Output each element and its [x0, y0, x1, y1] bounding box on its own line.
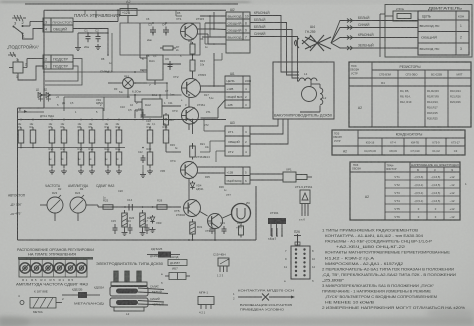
- capacitor C9: [169, 61, 171, 65]
- transistor VT1: [181, 23, 198, 40]
- transistor VT5: [184, 200, 201, 217]
- switch P2K body: [291, 246, 310, 279]
- wire v112: [111, 33, 113, 72]
- wire vertical v210: [209, 16, 211, 37]
- box twocell: [169, 273, 186, 280]
- wire h108: [18, 107, 103, 109]
- connector X5 table: [225, 167, 250, 184]
- wire bottom area: [192, 234, 194, 240]
- resistor R38 col: [165, 113, 167, 115]
- resonator circle: [232, 204, 251, 223]
- A2 overline bracket: [25, 3, 238, 5]
- capacitor C2: [97, 33, 99, 37]
- voltage table frame: [350, 162, 460, 220]
- resistor R30 vert: [192, 144, 194, 147]
- plug XP1: [283, 172, 296, 182]
- package KT361: [268, 218, 286, 224]
- trimmer SP5: [218, 258, 229, 266]
- control board outline left lower: [18, 107, 45, 109]
- jack symbol 2: [8, 52, 16, 57]
- junction dots bus: [63, 119, 65, 121]
- resistor row A: [20, 127, 22, 130]
- vacuum motor box: [273, 62, 334, 119]
- wire v143: [142, 109, 144, 120]
- wire VT1 links: [198, 28, 215, 30]
- capacitor C1: [87, 33, 89, 37]
- wire lamp: [108, 82, 123, 84]
- wire stub sh3 c: [216, 150, 225, 152]
- inductor L2 vert: [320, 88, 323, 105]
- wire resistors right: [149, 146, 151, 149]
- vacuum wires in: [281, 64, 299, 72]
- bus line low: [18, 147, 125, 149]
- wires table to plug: [250, 173, 283, 175]
- ground row: [51, 169, 53, 172]
- wire stub sh3 a: [204, 130, 225, 132]
- motor drawing: [114, 271, 118, 282]
- marker dot: [20, 301, 24, 305]
- capacitor C21 col: [142, 112, 144, 115]
- wire h72: [44, 71, 147, 73]
- bus junction dots: [20, 119, 22, 121]
- wire podstr loop: [45, 59, 82, 86]
- potentiometer R23: [47, 197, 63, 213]
- wire DA1 to VT2: [163, 63, 181, 65]
- wire vt6 down: [214, 229, 216, 235]
- meta hatch box: [30, 298, 56, 309]
- capacitor C4: [165, 27, 167, 31]
- resistors table frame: [349, 62, 471, 127]
- wire VT col: [188, 98, 190, 108]
- wire mesh top: [127, 16, 129, 24]
- inner box top area: [120, 23, 200, 55]
- wire pot to cell 2: [27, 58, 43, 60]
- motor internal wires: [380, 13, 385, 15]
- diode VD3 down: [152, 215, 154, 217]
- transistor VT6: [208, 214, 223, 229]
- capacitor group bottom: [114, 224, 116, 228]
- motor outer box: [385, 5, 472, 58]
- diode VD4: [192, 181, 194, 183]
- wire stub c: [221, 53, 223, 60]
- wire vertical v205: [204, 23, 206, 44]
- wire h95 ext: [135, 94, 182, 96]
- potentiometer R24: [70, 197, 86, 213]
- transistor VT2: [182, 79, 201, 98]
- plug XP4 symbol: [302, 35, 331, 51]
- inductor L1: [299, 78, 317, 81]
- opamp DA2 box: [142, 99, 162, 117]
- capacitors table frame: [332, 130, 465, 155]
- wire v167: [166, 83, 168, 99]
- wire DA1 pins: [140, 57, 147, 59]
- control board outline right lower: [255, 186, 257, 240]
- resistor R4 vert: [192, 42, 194, 44]
- wire bus from cell3: [73, 21, 118, 23]
- capacitor C22 col: [142, 155, 144, 158]
- bus line main: [18, 119, 226, 121]
- switch SA0 contact: [13, 26, 15, 28]
- connector X1 table: [225, 76, 250, 108]
- pin marks P2K top: [271, 228, 273, 236]
- potentiometer R27: [13, 62, 23, 73]
- resistor R25 horiz: [101, 206, 103, 208]
- wire DA2 pins: [135, 101, 142, 103]
- connector X3 table: [225, 126, 250, 156]
- opamp DA1 box: [147, 55, 163, 80]
- wire stub a: [95, 10, 97, 18]
- grounds mid: [124, 230, 126, 233]
- resistor row B: [51, 149, 53, 152]
- wire mid row: [95, 204, 98, 206]
- bus line E: [18, 111, 44, 113]
- right smudge: [426, 308, 474, 318]
- connector X2 table: [226, 12, 250, 53]
- cell 2 PODSTR: [43, 55, 51, 62]
- control board outline bottom: [18, 239, 257, 241]
- wire bus h95: [44, 94, 135, 96]
- control board outline left: [43, 10, 45, 108]
- wire pot to cell 1: [18, 66, 43, 80]
- resistor R26 hatch: [122, 213, 128, 227]
- box +12V top: [120, 9, 137, 16]
- cell 1 PODSTR: [43, 62, 51, 69]
- wire stub b: [175, 10, 177, 16]
- controls bar: [18, 257, 93, 260]
- voltage table rows: [385, 179, 460, 181]
- junction dots extra: [117, 9, 119, 11]
- motor table: [418, 11, 469, 55]
- motor harness wires: [331, 21, 418, 44]
- cell 4 OBSHCHIY: [43, 25, 51, 32]
- motor fuse box: [393, 11, 418, 21]
- wire r1 to conn: [200, 15, 226, 17]
- contact symbol: [238, 296, 262, 298]
- wire right bus1: [201, 85, 226, 87]
- transistor VT3: [182, 107, 199, 124]
- capacitor C14 series: [128, 204, 130, 211]
- wire VT4 area: [188, 179, 190, 200]
- wire to cell 3: [23, 25, 31, 27]
- box D12587: [168, 260, 187, 266]
- lamp HL1: [123, 78, 134, 89]
- wire top caps: [78, 32, 108, 34]
- potentiometer row: [19, 260, 87, 278]
- package KT3-6: [300, 190, 310, 204]
- cell 3 PUSK/STOP: [43, 18, 51, 25]
- diode VD anod: [62, 294, 78, 296]
- resistor R28 horiz: [155, 206, 157, 208]
- control board outline top: [44, 9, 226, 11]
- connector XS1 jack symbol: [12, 15, 23, 21]
- wire stub sh3 b: [210, 140, 225, 142]
- wire to cell 4: [23, 29, 44, 40]
- switch P2K key: [297, 234, 299, 246]
- wire r2: [214, 28, 226, 31]
- bottom corner smudge: [0, 316, 30, 326]
- transistor VT4: [181, 162, 198, 179]
- resistor R10 vert: [192, 58, 194, 61]
- resistor R3 horiz: [160, 47, 163, 49]
- vacuum out wires: [250, 119, 278, 126]
- wire left v: [77, 33, 79, 45]
- resistator R31 hatch: [190, 222, 196, 234]
- rotor circle: [302, 87, 317, 102]
- vacuum wires aux: [310, 81, 312, 86]
- resistor R27h: [140, 213, 146, 227]
- capacitor C3: [152, 27, 154, 31]
- bottom caps right: [211, 226, 213, 229]
- wire from cell4: [73, 29, 108, 56]
- wire v1: [213, 12, 215, 29]
- wire v160: [159, 95, 161, 99]
